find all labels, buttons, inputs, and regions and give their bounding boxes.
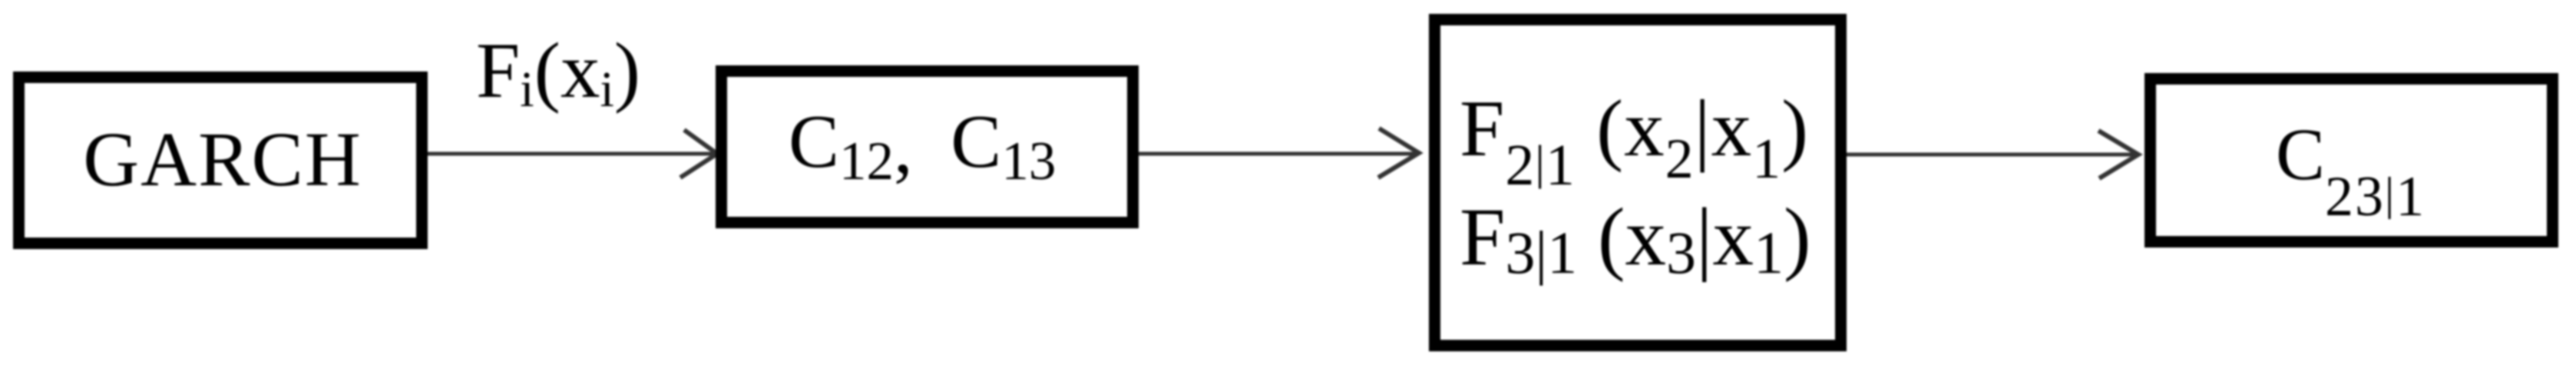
box C12, C13 [716,65,1139,228]
label F2|1 (x2|x1) [1460,88,1809,168]
label GARCH [15,121,430,198]
arrowhead 3 [2098,131,2138,178]
wire [428,152,715,156]
wire arrow 3: F box to C23|1 [1847,153,2135,157]
label F3|1 (x3|x1) [1460,197,1811,279]
box C23|1 [2144,73,2558,248]
arrowhead 2 [1378,128,1419,178]
label C23|1 [2276,118,2426,191]
wire arrow 2: C12,C13 to F box [1139,152,1415,156]
box F2|1 F3|1 [1429,14,1847,351]
label F_i(x_i) on arrow 1 [476,32,640,111]
box GARCH [13,71,428,249]
arrowhead 1 [680,130,717,178]
label C12, C13 [789,104,1056,180]
